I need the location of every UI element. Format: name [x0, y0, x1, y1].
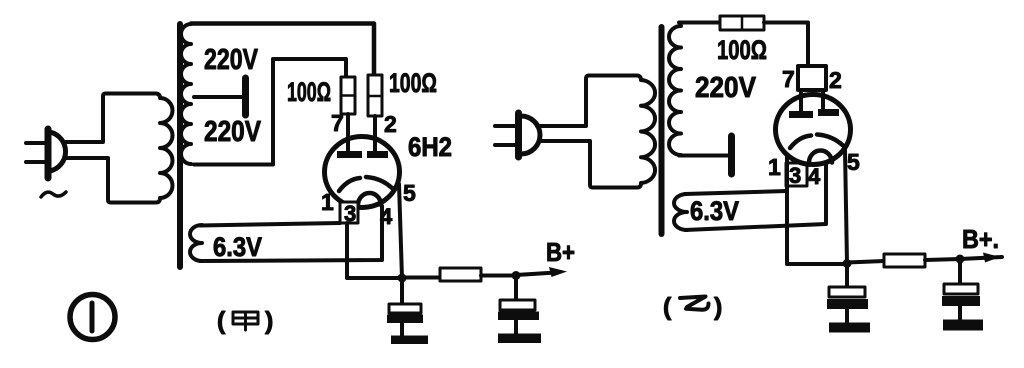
wire 6.3V top to pin3 right	[685, 191, 787, 194]
transformer T1 6.3V winding	[190, 225, 202, 261]
capacitor C1 negative plate	[387, 315, 423, 324]
wire HV bottom tap	[679, 154, 728, 158]
B+ arrowhead	[549, 267, 567, 277]
wire R3 to plates	[764, 23, 808, 67]
center tap terminal bar	[242, 78, 249, 115]
AC plug P1 prong bottom	[26, 160, 48, 164]
svg-text:): )	[265, 307, 273, 335]
wire HV top to R3	[679, 21, 720, 25]
filter resistor R6	[884, 254, 925, 267]
tube V2 envelope	[776, 95, 851, 165]
wire plug2 to primary top	[537, 76, 589, 127]
svg-text:B+: B+	[546, 237, 575, 267]
ground bar C3	[829, 323, 870, 333]
AC symbol ~	[41, 192, 66, 197]
transformer T2 6.3V winding	[674, 194, 687, 230]
plate join box	[798, 66, 826, 90]
ground bar C2	[498, 334, 541, 344]
tube V1 cathode right arc	[366, 177, 392, 188]
svg-text:6H2: 6H2	[408, 132, 452, 162]
svg-text:220V: 220V	[204, 116, 262, 148]
svg-text:(: (	[663, 293, 672, 321]
wire node C to filter resistor right	[847, 261, 884, 263]
capacitor C4 ground lead	[958, 306, 962, 320]
wire 6.3V bottom to pin4 right	[685, 164, 826, 230]
resistor R3 100ohm	[720, 16, 764, 30]
wire R2 to plate pin2	[373, 116, 377, 152]
caption character 乙	[680, 297, 709, 310]
capacitor C3 lead	[845, 264, 849, 287]
svg-text:4: 4	[380, 204, 393, 229]
svg-text:(: (	[217, 307, 226, 335]
AC plug P2 prong top	[495, 124, 517, 128]
wire HV center tap	[194, 95, 242, 99]
svg-text:7: 7	[782, 66, 795, 92]
tube V2 cathode right arc	[817, 135, 843, 146]
wire plug to primary bottom	[66, 158, 111, 203]
tube V2 right plate	[818, 109, 839, 116]
capacitor C2 ground lead	[514, 320, 518, 334]
tube V2 left plate	[789, 111, 813, 118]
tube V1 right plate	[367, 151, 388, 158]
svg-text:7: 7	[331, 110, 344, 136]
svg-text:1: 1	[321, 189, 334, 215]
transformer T2 HV secondary winding 220V	[669, 26, 681, 155]
wire box to left plate	[799, 90, 803, 112]
AC plug P2 body arc	[521, 116, 540, 154]
AC plug P2 body bar	[515, 113, 522, 157]
node C junction dot	[843, 259, 852, 268]
filter resistor R5	[440, 268, 481, 281]
capacitor C1 lead	[400, 278, 404, 304]
tube V1 cathode bottom loop	[358, 193, 381, 205]
svg-text:100Ω: 100Ω	[389, 68, 437, 98]
figure number circle 1	[70, 295, 115, 340]
svg-text:B+.: B+.	[962, 224, 999, 254]
svg-text:5: 5	[403, 180, 416, 206]
capacitor C1 positive plate	[389, 304, 421, 313]
transformer T2 core	[659, 27, 665, 234]
capacitor C2 lead	[514, 276, 518, 300]
transformer T1 primary winding	[106, 94, 172, 203]
svg-text:220V: 220V	[204, 44, 259, 76]
wire plug to primary top	[64, 94, 106, 143]
tube V1 left plate	[337, 151, 362, 158]
capacitor C4 positive plate	[944, 284, 978, 294]
pin 3 box	[340, 202, 358, 223]
svg-text:100Ω: 100Ω	[717, 35, 767, 65]
tap terminal bar right	[728, 136, 735, 174]
ground bar C1	[391, 336, 428, 345]
resistor R1 100ohm	[341, 77, 355, 114]
capacitor C3 ground lead	[845, 309, 849, 323]
tube V2 cathode left arc	[790, 136, 811, 149]
wire plug2 to primary bottom	[539, 141, 593, 188]
transformer T2 primary winding	[589, 76, 655, 188]
wire box to right plate	[821, 90, 825, 110]
tube V1 cathode left arc	[339, 178, 360, 191]
wire HV top to R2	[191, 24, 374, 76]
ground bar C4	[943, 320, 983, 331]
wire 6.3V bottom to pin4	[200, 206, 382, 261]
AC plug P1 body arc	[50, 132, 66, 171]
capacitor C4 lead	[958, 259, 962, 284]
svg-text:1: 1	[768, 154, 781, 180]
wire HV bottom to R1	[194, 59, 346, 165]
node A junction dot	[398, 274, 407, 283]
capacitor C3 positive plate	[829, 287, 865, 297]
resistor R2 100ohm	[368, 75, 382, 116]
capacitor C4 negative plate	[942, 296, 980, 306]
B+ arrowhead right	[983, 253, 1000, 263]
AC plug P2 prong bottom	[495, 143, 517, 147]
svg-text:2: 2	[384, 111, 397, 137]
tube V1 envelope	[325, 137, 400, 208]
wire pin3 to cathode node	[347, 223, 402, 278]
capacitor C2 negative plate	[498, 312, 539, 321]
svg-text:100Ω: 100Ω	[287, 77, 331, 107]
wire node B to B+ arrow	[516, 273, 556, 276]
pin 3 box right	[786, 163, 807, 186]
wire pin3 to cathode node right	[787, 155, 847, 264]
pin 5 cathode lead right	[845, 150, 847, 263]
svg-text:4: 4	[808, 164, 821, 189]
svg-text:6.3V: 6.3V	[690, 196, 739, 226]
capacitor C1 ground lead	[400, 323, 404, 336]
svg-text:5: 5	[847, 149, 860, 175]
wire R5 to node B	[481, 274, 516, 278]
transformer T1 HV secondary winding 220V+220V	[181, 24, 191, 164]
capacitor C3 negative plate	[827, 299, 868, 309]
svg-text:6.3V: 6.3V	[213, 232, 262, 262]
node B junction dot	[512, 271, 521, 280]
transformer T1 core	[177, 24, 183, 267]
wire 6.3V top to pin3 box	[200, 223, 340, 226]
svg-text:): )	[714, 293, 722, 321]
pin 5 cathode lead	[399, 184, 402, 278]
tube V2 cathode bottom loop	[809, 151, 832, 163]
svg-text:3: 3	[789, 163, 801, 188]
caption character 甲	[233, 312, 258, 330]
wire node D to B+ arrow right	[960, 257, 1002, 259]
AC plug P1 prong top	[26, 141, 48, 145]
wire R6 to node D	[925, 259, 960, 260]
capacitor C2 positive plate	[500, 300, 535, 310]
svg-text:2: 2	[829, 67, 842, 93]
AC plug P1 body bar	[45, 129, 52, 178]
wire R1 to plate pin7	[346, 114, 350, 152]
svg-text:220V: 220V	[695, 72, 757, 104]
wire node to filter resistor	[402, 276, 440, 280]
node D junction dot	[956, 255, 965, 264]
